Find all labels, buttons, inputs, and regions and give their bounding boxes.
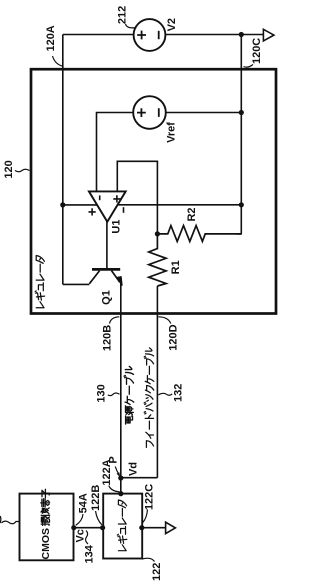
node V+ supply/rail: [60, 202, 65, 207]
svg-text:120C: 120C: [251, 38, 263, 64]
wire emitter down 120B: [120, 283, 122, 494]
wire left rail 120A vertical: [62, 35, 64, 285]
wire feedback cable to node P: [121, 477, 158, 479]
svg-text:120D: 120D: [168, 324, 180, 350]
box 134 CMOS image sensor: [20, 494, 74, 561]
terminal arrow at 122 output: [166, 522, 176, 533]
terminal arrow 120C: [263, 29, 274, 41]
node 122C pin: [139, 525, 144, 530]
wire V2 right to node 120C: [166, 34, 264, 36]
svg-text:122B: 122B: [90, 485, 102, 511]
node junction dots: [60, 32, 244, 530]
svg-text:Q1: Q1: [101, 290, 113, 305]
box 120 regulator: [31, 69, 276, 313]
wire right rail vertical: [240, 35, 242, 234]
svg-text:54A: 54A: [77, 493, 89, 513]
text regulator katakana in box 120: [35, 256, 45, 308]
box 122 regulator small: [103, 494, 142, 559]
node 54A pin: [71, 525, 76, 530]
svg-text:120B: 120B: [102, 325, 114, 351]
node V- supply/rail: [239, 202, 244, 207]
resistor R2: [157, 226, 241, 242]
node Vref/rail: [239, 110, 244, 115]
svg-text:V2: V2: [166, 18, 178, 31]
voltage source Vref: [133, 96, 166, 129]
wire feedback to +input: [117, 161, 157, 234]
svg-text:Vd: Vd: [128, 462, 140, 476]
wire Vref right: [166, 112, 242, 114]
wire U1 output to Q1 base: [106, 221, 108, 268]
svg-text:R2: R2: [186, 207, 198, 221]
svg-text:134: 134: [83, 544, 95, 563]
svg-text:122: 122: [151, 563, 163, 581]
text regulator katakana in box 122: [117, 500, 127, 551]
svg-text:120: 120: [3, 160, 15, 178]
svg-text:122C: 122C: [144, 484, 156, 510]
svg-text:U1: U1: [110, 220, 122, 234]
wire op-amp V+ supply: [63, 204, 97, 206]
node at V2/120C: [239, 32, 244, 37]
svg-text:Vc: Vc: [74, 529, 86, 542]
wire V2 left to rail: [63, 34, 134, 36]
node P junction: [118, 475, 123, 480]
svg-text:R1: R1: [170, 260, 182, 274]
voltage source V2: [134, 19, 166, 51]
op-amp U1: [89, 191, 126, 221]
wire op-amp V- supply: [118, 204, 242, 206]
wire R2 top link: [237, 233, 242, 235]
svg-text:212: 212: [117, 6, 129, 24]
svg-text:Vref: Vref: [166, 122, 178, 143]
wire R1 down 120D: [156, 286, 158, 478]
node R1 R2 feedback: [155, 231, 160, 236]
text power cable katakana 130: [124, 366, 134, 424]
wire Vc between boxes: [74, 527, 103, 529]
text feedback cable katakana 132: [144, 348, 154, 448]
svg-text:132: 132: [173, 384, 185, 402]
svg-text:122A: 122A: [101, 459, 113, 485]
wire Vref left: [97, 113, 134, 191]
wire collector to rail: [63, 283, 90, 285]
wire regulator 122 output: [142, 527, 166, 529]
svg-text:CMOS: CMOS: [40, 528, 52, 560]
svg-text:120A: 120A: [45, 25, 57, 51]
node 122A pin: [118, 491, 123, 496]
node 122B pin: [100, 525, 105, 530]
leader cut at left edge: [2, 521, 20, 524]
transistor Q1: [89, 269, 122, 285]
resistor R1: [149, 234, 166, 286]
svg-text:130: 130: [96, 384, 108, 402]
